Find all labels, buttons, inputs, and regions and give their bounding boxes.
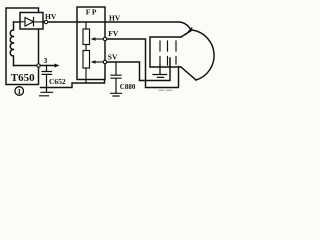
capacitor C652 <box>42 66 52 88</box>
svg-text:HV: HV <box>109 13 121 22</box>
ground below C880 <box>111 93 122 96</box>
svg-text:SV: SV <box>108 52 118 61</box>
wire FV to CRT focus grid <box>107 39 179 88</box>
diode box (HV rectifier) <box>20 13 43 30</box>
electrode G2 dashed <box>167 41 169 65</box>
wiper arrow FV <box>95 38 105 40</box>
resistor R focus (upper potentiometer) <box>83 29 90 45</box>
transformer T650 box <box>6 8 39 85</box>
svg-text:C880: C880 <box>120 83 136 91</box>
faint print artifact dashes under CRT wire <box>159 89 172 91</box>
svg-text:HV: HV <box>45 12 57 21</box>
CRT neck <box>150 37 181 67</box>
CRT funnel bottom <box>181 67 196 80</box>
capacitor C880 <box>111 62 121 93</box>
svg-text:1: 1 <box>17 87 21 96</box>
wire bottom bus C652 to FP box bottom <box>41 80 105 88</box>
node pin 3 of T650 <box>37 64 40 67</box>
ground inside CRT <box>153 64 167 77</box>
wire between pots <box>85 45 87 51</box>
node HV (diode output terminal) <box>44 20 47 23</box>
wiper arrow SV <box>95 61 105 63</box>
wire pot chain top <box>85 22 87 29</box>
node FV terminal <box>103 37 106 40</box>
electrode G1 dashed <box>159 41 161 64</box>
resistor R screen (lower potentiometer) <box>83 51 90 69</box>
coil (T650 HV winding) <box>10 22 13 66</box>
CRT funnel top <box>181 30 192 37</box>
wire coil bottom to pin 3 node <box>14 65 37 67</box>
node SV terminal <box>103 60 106 63</box>
wire pin3 with arrow <box>40 65 55 67</box>
svg-text:FP: FP <box>86 8 98 17</box>
svg-text:T650: T650 <box>11 72 35 84</box>
ground below C652 <box>40 88 53 96</box>
wire coil top to diode box <box>14 21 21 23</box>
circled 1 footnote <box>15 87 24 96</box>
wire SV to CRT screen grid <box>107 58 170 81</box>
svg-text:FV: FV <box>108 29 119 38</box>
wire HV line to CRT anode <box>48 22 191 30</box>
svg-text:3: 3 <box>44 56 48 65</box>
CRT face arc <box>192 30 214 80</box>
arrowhead pin3 <box>55 64 60 68</box>
svg-text:C652: C652 <box>49 77 66 86</box>
anode contact tick <box>186 28 192 35</box>
electrode G3 dashed <box>175 41 177 64</box>
wire pot chain bottom <box>85 68 87 83</box>
FP box (focus pack) <box>77 7 105 80</box>
diode symbol <box>20 18 44 27</box>
